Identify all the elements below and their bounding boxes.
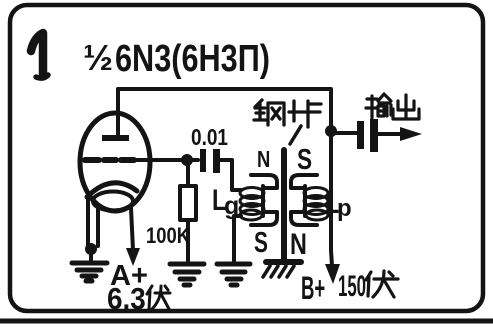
svg-text:p: p [337,195,352,222]
svg-text:N: N [257,147,270,172]
wire: grid to junction [134,158,198,162]
svg-text:S: S [297,142,312,175]
svg-text:6.3: 6.3 [107,282,146,317]
wire: capacitor to Lg top [220,160,241,190]
pointer slash to reed [290,126,301,144]
svg-text:g: g [224,192,239,220]
coil Lg winding [240,188,264,221]
label fu (volt) glyph 2 [366,271,398,297]
bottom page rule [0,319,493,324]
capacitor C2 (output) [357,121,364,149]
svg-text:6N3(6Н3П): 6N3(6Н3П) [115,38,270,80]
core left (horseshoe) [251,175,277,225]
wire: top run from plate to right side [118,89,331,128]
svg-text:N: N [290,227,307,260]
capacitor C1 0.01 [200,149,206,172]
ground G4 (reed, chassis style) [263,262,301,277]
node: grid junction [181,154,193,166]
svg-text:S: S [254,227,268,259]
wire: right vertical B+ feed [329,128,333,250]
B+ arrow head [325,264,340,284]
wire: heater lead 2 to A+ arrow [131,208,133,250]
node: output junction [325,125,337,137]
svg-text:150: 150 [338,270,366,303]
svg-text:B+: B+ [301,270,325,307]
label fu (volt) glyph [147,286,170,309]
svg-text:½: ½ [83,37,113,78]
coil Lp winding [304,188,328,221]
wire: resistor to ground [186,220,190,261]
tube V1 envelope [80,113,150,211]
wire: Lg bottom to ground [234,216,241,261]
ground G2 (resistor) [170,264,204,285]
tube V1 grid (dashed) [85,157,134,163]
tube V1 heater loop [93,192,133,211]
wire: plate lead up [116,89,120,136]
wire: junction to ground [89,249,93,261]
label steel-strip (gang pian) [254,100,321,127]
wire: junction to output capacitor [331,131,357,135]
node: cathode/heater junction [85,243,97,255]
wire: cathode lead down [86,197,90,246]
ground G1 (cathode) [72,263,107,281]
figure number 1 [31,33,48,78]
wire: junction to resistor [186,160,190,186]
resistor R1 body [180,186,196,220]
wire and output arrow [378,132,402,136]
core right (horseshoe) [291,175,317,225]
ground G3 (Lg) [217,264,250,285]
svg-text:0.01: 0.01 [191,124,228,150]
label shu-chu (output) glyphs [366,94,419,119]
steel reed bar [281,150,287,261]
svg-text:100K: 100K [146,223,190,248]
tube V1 cathode arc [87,183,137,197]
tube V1 plate (anode) bar [102,135,129,141]
wire: heater lead 1 down [96,209,100,246]
